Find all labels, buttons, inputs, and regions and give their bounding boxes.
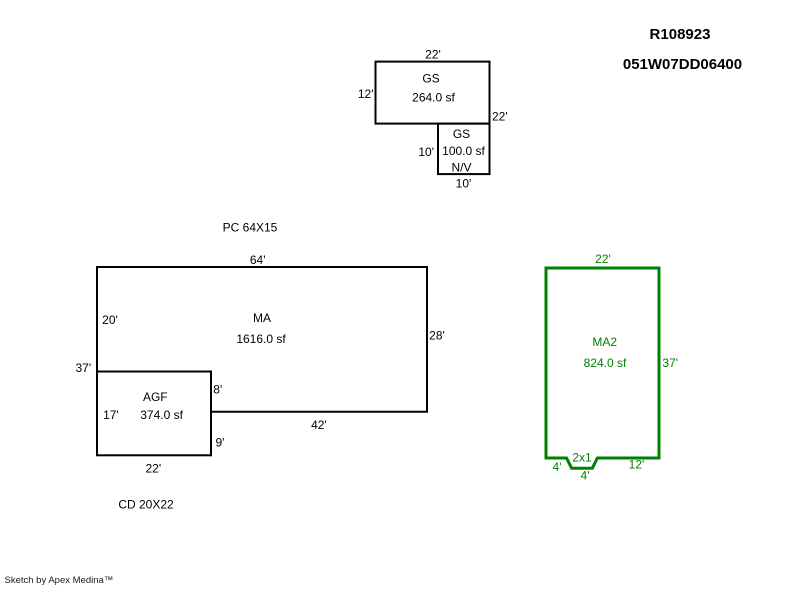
svg-text:GS: GS [453,127,470,141]
svg-text:17': 17' [103,408,119,422]
svg-text:2x1: 2x1 [572,451,592,465]
svg-text:MA: MA [253,311,271,325]
svg-text:12': 12' [358,87,374,101]
svg-text:1616.0 sf: 1616.0 sf [236,332,286,346]
svg-text:N/V: N/V [451,160,471,174]
AGF building outline (374 sf) [97,372,211,456]
svg-text:CD 20X22: CD 20X22 [118,498,174,512]
svg-text:64': 64' [250,253,266,267]
MA2 building outline (824 sf, green, notched bottom) [546,268,659,468]
svg-text:8': 8' [213,382,222,396]
svg-text:9': 9' [216,436,225,450]
svg-text:37': 37' [75,361,91,375]
svg-text:22': 22' [425,48,441,62]
svg-text:10': 10' [418,145,434,159]
svg-text:12': 12' [629,458,645,472]
svg-text:Sketch by Apex Medina™: Sketch by Apex Medina™ [5,575,114,586]
svg-text:100.0 sf: 100.0 sf [442,144,485,158]
svg-text:GS: GS [422,71,439,85]
svg-text:22': 22' [492,110,508,124]
svg-text:22': 22' [145,461,161,475]
svg-text:374.0 sf: 374.0 sf [140,408,183,422]
svg-text:22': 22' [595,252,611,266]
svg-text:AGF: AGF [143,390,168,404]
GS upper building outline (264 sf) [376,62,490,124]
svg-text:37': 37' [662,356,678,370]
svg-text:824.0 sf: 824.0 sf [584,356,627,370]
svg-text:264.0 sf: 264.0 sf [412,90,455,104]
svg-text:R108923: R108923 [650,26,711,43]
GS lower building outline (100 sf) [438,124,490,175]
MA building outline (1616 sf, L-shape) [97,267,427,412]
svg-text:10': 10' [456,176,472,190]
svg-text:42': 42' [311,418,327,432]
svg-text:PC 64X15: PC 64X15 [223,221,278,235]
svg-text:4': 4' [553,460,562,474]
svg-text:4': 4' [581,469,590,483]
svg-text:051W07DD06400: 051W07DD06400 [623,56,742,73]
svg-text:20': 20' [102,313,118,327]
svg-text:MA2: MA2 [592,335,617,349]
svg-text:28': 28' [429,328,445,342]
